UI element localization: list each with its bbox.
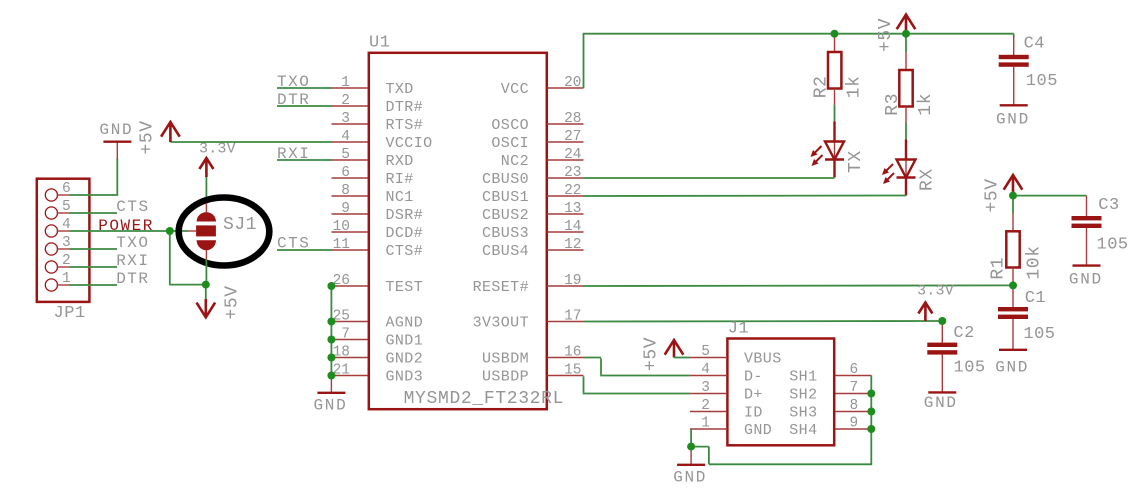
connector J1 — [727, 339, 834, 446]
wire SJ1 bottom — [205, 260, 207, 285]
capacitor C2 — [941, 321, 943, 343]
svg-text:1: 1 — [341, 75, 350, 91]
wire CTS (U1 pin11) — [277, 249, 332, 251]
LED TX — [833, 122, 835, 143]
svg-text:7: 7 — [341, 327, 350, 343]
svg-text:11: 11 — [333, 237, 350, 253]
svg-text:105: 105 — [1023, 325, 1055, 344]
svg-text:CBUS4: CBUS4 — [482, 243, 529, 260]
svg-text:GND: GND — [996, 111, 1030, 129]
svg-text:C3: C3 — [1098, 196, 1119, 215]
svg-text:27: 27 — [564, 129, 581, 145]
svg-text:12: 12 — [564, 237, 581, 253]
wire VCCIO +5V — [170, 141, 331, 143]
junction SJ1 bottom — [202, 281, 210, 289]
wire USBDM to J1 D- — [584, 357, 602, 359]
svg-text:+5V: +5V — [223, 285, 243, 319]
junction SH3 — [867, 408, 875, 416]
wire DTR (JP1 pin1) — [70, 284, 118, 286]
svg-text:DTR: DTR — [277, 91, 310, 109]
junction J1 GND — [687, 443, 695, 451]
svg-text:DTR#: DTR# — [386, 99, 424, 116]
wire R2 to LED TX — [834, 105, 836, 122]
wire RESET# net — [584, 284, 1014, 287]
svg-text:TXO: TXO — [116, 234, 149, 252]
wire R3 top — [905, 34, 907, 52]
ground C2 — [928, 391, 956, 393]
svg-text:TX: TX — [846, 150, 866, 173]
svg-text:1: 1 — [701, 416, 710, 432]
junction GND chain y339.5 — [327, 336, 335, 344]
supply 3.3V arrow (C2) — [918, 303, 932, 314]
junction SH2 — [867, 390, 875, 398]
svg-text:SH2: SH2 — [789, 387, 817, 404]
svg-text:1: 1 — [62, 271, 71, 287]
svg-text:5: 5 — [341, 147, 350, 163]
svg-text:5: 5 — [62, 199, 71, 215]
svg-text:USBDP: USBDP — [482, 369, 529, 386]
svg-text:3: 3 — [341, 111, 350, 127]
junction SH4 — [867, 425, 875, 433]
IC U1 MYSMD2_FT232RL — [369, 53, 547, 409]
wire TXO (U1 pin1) — [277, 87, 332, 89]
svg-text:NC2: NC2 — [501, 153, 529, 170]
svg-text:D-: D- — [744, 369, 763, 386]
ground J1 — [690, 447, 692, 465]
svg-text:4: 4 — [701, 362, 710, 378]
LED RX — [905, 140, 907, 161]
capacitor C1 — [1012, 285, 1014, 307]
junction GND chain y375.5 — [327, 372, 335, 380]
wire 3.3V to SJ1 — [205, 177, 207, 204]
svg-text:RX: RX — [918, 168, 938, 191]
svg-text:GND: GND — [1069, 271, 1103, 289]
svg-text:USBDM: USBDM — [482, 351, 529, 368]
svg-text:24: 24 — [564, 147, 581, 163]
svg-text:3: 3 — [701, 380, 710, 396]
+5V arrow (top rail) — [897, 15, 916, 30]
svg-text:13: 13 — [564, 201, 581, 217]
svg-text:6: 6 — [341, 165, 350, 181]
svg-text:16: 16 — [564, 345, 581, 361]
svg-text:TEST: TEST — [386, 279, 424, 296]
resistor R3 — [905, 52, 907, 70]
wire POWER down — [169, 231, 171, 285]
svg-text:R3: R3 — [883, 93, 903, 116]
wire 3V3OUT net — [584, 320, 943, 323]
wire POWER (JP1 pin4) — [70, 230, 189, 232]
svg-text:6: 6 — [62, 181, 71, 197]
svg-text:DTR: DTR — [116, 270, 149, 288]
ground U1 — [330, 376, 332, 393]
svg-text:OSCO: OSCO — [491, 117, 529, 134]
svg-text:CBUS3: CBUS3 — [482, 225, 529, 242]
wire VCC to +5V rail — [583, 34, 585, 88]
svg-text:1k: 1k — [845, 75, 865, 98]
wire J1 GND down — [690, 429, 692, 447]
svg-text:ID: ID — [744, 405, 763, 422]
resistor R2 — [834, 34, 836, 52]
svg-text:10: 10 — [333, 219, 350, 235]
svg-text:RXI: RXI — [116, 252, 149, 270]
supply +5V down arrow (SJ1) — [197, 303, 216, 318]
svg-text:CTS: CTS — [116, 198, 149, 216]
svg-text:9: 9 — [341, 201, 350, 217]
svg-text:5: 5 — [701, 344, 710, 360]
junction R1 top — [1009, 192, 1017, 200]
capacitor C4 — [1013, 36, 1015, 55]
svg-text:C1: C1 — [1025, 289, 1046, 308]
+5V arrow (VBUS) — [665, 340, 684, 355]
wire R3 to LED RX — [905, 123, 907, 140]
svg-text:22: 22 — [564, 183, 581, 199]
svg-text:+5V: +5V — [983, 178, 1003, 212]
svg-text:1k: 1k — [916, 93, 936, 116]
svg-text:GND: GND — [995, 359, 1029, 377]
svg-text:SH4: SH4 — [789, 422, 817, 439]
svg-text:DCD#: DCD# — [386, 225, 424, 242]
wire JP1 pin6 to GND — [70, 194, 118, 196]
svg-text:R2: R2 — [811, 75, 831, 98]
svg-text:RXD: RXD — [386, 153, 414, 170]
svg-text:17: 17 — [564, 309, 581, 325]
svg-text:4: 4 — [341, 129, 350, 145]
svg-text:SJ1: SJ1 — [223, 215, 257, 235]
svg-text:10k: 10k — [1025, 245, 1045, 279]
svg-text:105: 105 — [1097, 236, 1129, 255]
svg-text:RESET#: RESET# — [473, 279, 529, 296]
svg-text:CBUS2: CBUS2 — [482, 207, 529, 224]
svg-text:TXD: TXD — [386, 81, 414, 98]
svg-text:R1: R1 — [989, 257, 1009, 280]
svg-text:GND1: GND1 — [386, 333, 424, 350]
svg-text:VCCIO: VCCIO — [386, 135, 433, 152]
solder jumper SJ1 — [179, 198, 270, 266]
svg-text:3V3OUT: 3V3OUT — [473, 315, 529, 332]
svg-text:8: 8 — [850, 398, 859, 414]
svg-text:RI#: RI# — [386, 171, 414, 188]
svg-text:23: 23 — [564, 165, 581, 181]
svg-text:GND: GND — [744, 422, 772, 439]
wire U1 ground chain — [330, 286, 332, 376]
ground C1 — [999, 349, 1027, 351]
+5V arrow (VCCIO) — [161, 122, 180, 137]
wire RXI (U1 pin5) — [277, 159, 332, 161]
svg-text:9: 9 — [850, 416, 859, 432]
junction GND chain y357.5 — [327, 354, 335, 362]
+5V arrow (R1) — [1004, 175, 1023, 190]
wire VBUS — [674, 357, 690, 359]
svg-text:GND: GND — [99, 121, 133, 139]
svg-text:U1: U1 — [369, 34, 390, 53]
supply 3.3V arrow (SJ1 top) — [199, 158, 213, 169]
svg-text:GND: GND — [673, 469, 707, 487]
svg-text:RTS#: RTS# — [386, 117, 424, 134]
ground GND top-left — [116, 142, 118, 160]
svg-text:2: 2 — [341, 93, 350, 109]
svg-text:VBUS: VBUS — [744, 351, 782, 368]
svg-text:GND: GND — [314, 397, 348, 415]
svg-text:CTS#: CTS# — [386, 243, 424, 260]
svg-text:7: 7 — [850, 380, 859, 396]
svg-text:NC1: NC1 — [386, 189, 414, 206]
junction R1 bottom — [1009, 281, 1017, 289]
wire USBDP to J1 D+ — [583, 376, 585, 392]
svg-text:105: 105 — [1026, 72, 1058, 91]
svg-text:19: 19 — [564, 273, 581, 289]
svg-text:2: 2 — [62, 253, 71, 269]
ground C3 — [1073, 264, 1101, 266]
svg-text:GND3: GND3 — [386, 369, 424, 386]
wire CBUS0 to LED TX — [584, 177, 835, 179]
svg-text:20: 20 — [564, 75, 581, 91]
svg-text:GND: GND — [924, 394, 958, 412]
svg-text:OSCI: OSCI — [491, 135, 529, 152]
svg-text:CBUS1: CBUS1 — [482, 189, 529, 206]
wire DTR (U1 pin2) — [277, 105, 332, 107]
svg-text:C2: C2 — [953, 324, 974, 343]
svg-text:CTS: CTS — [277, 235, 310, 253]
svg-text:POWER: POWER — [98, 217, 154, 235]
wire RXI (JP1 pin2) — [70, 266, 118, 268]
svg-text:+5V: +5V — [876, 18, 896, 52]
svg-text:VCC: VCC — [501, 81, 529, 98]
junction GND chain y286 — [327, 282, 335, 290]
wire J1 shield ground loop — [691, 446, 709, 448]
svg-text:CBUS0: CBUS0 — [482, 171, 529, 188]
junction R2 top — [831, 30, 839, 38]
svg-text:C4: C4 — [1024, 35, 1045, 54]
junction C2 — [938, 317, 946, 325]
resistor R1 — [1012, 214, 1014, 232]
wire R1 top — [1012, 196, 1014, 214]
svg-text:RXI: RXI — [277, 145, 310, 163]
svg-text:2: 2 — [701, 398, 710, 414]
svg-text:MYSMD2_FT232RL: MYSMD2_FT232RL — [404, 389, 564, 409]
wire +5V to C3 — [1013, 195, 1087, 197]
svg-text:TXO: TXO — [277, 73, 310, 91]
svg-text:JP1: JP1 — [54, 304, 86, 323]
svg-text:DSR#: DSR# — [386, 207, 424, 224]
wire TXO (JP1 pin3) — [70, 248, 118, 250]
svg-text:SH3: SH3 — [789, 405, 817, 422]
svg-text:6: 6 — [850, 362, 859, 378]
wire CBUS1 to LED RX — [584, 195, 907, 198]
svg-text:SH1: SH1 — [789, 369, 817, 386]
connector JP1 — [37, 179, 90, 302]
svg-text:GND2: GND2 — [386, 351, 424, 368]
svg-text:+5V: +5V — [642, 337, 662, 371]
svg-text:D+: D+ — [744, 387, 763, 404]
svg-text:J1: J1 — [728, 320, 749, 339]
svg-text:105: 105 — [954, 359, 986, 378]
junction GND chain y321.5 — [327, 318, 335, 326]
svg-text:4: 4 — [62, 217, 71, 233]
capacitor C3 — [1086, 196, 1088, 216]
wire CTS (JP1 pin5) — [70, 212, 118, 214]
svg-text:AGND: AGND — [386, 315, 424, 332]
svg-text:8: 8 — [341, 183, 350, 199]
svg-text:15: 15 — [564, 363, 581, 379]
svg-text:3.3V: 3.3V — [199, 141, 236, 158]
svg-text:28: 28 — [564, 111, 581, 127]
junction R3/+5V top — [902, 30, 910, 38]
svg-text:14: 14 — [564, 219, 581, 235]
svg-text:3.3V: 3.3V — [917, 283, 954, 300]
ground C4 — [1000, 104, 1028, 106]
svg-text:+5V: +5V — [138, 120, 158, 154]
svg-text:3: 3 — [62, 235, 71, 251]
junction POWER/SJ1 — [166, 227, 174, 235]
